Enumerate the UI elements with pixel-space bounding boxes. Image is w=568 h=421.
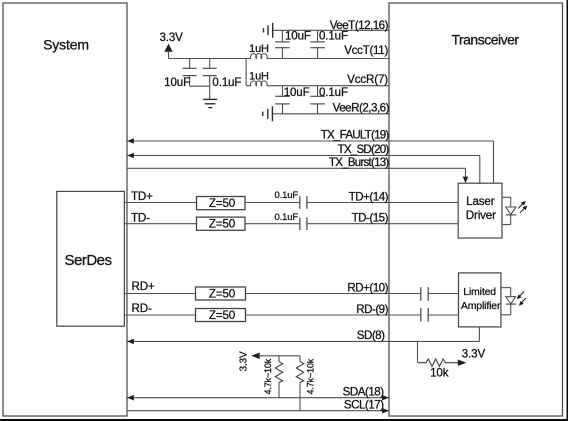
svg-text:SerDes: SerDes [64,252,111,269]
wire 3.3V rail [169,58,251,60]
svg-text:TX_SD(20): TX_SD(20) [338,143,390,156]
wire TD- to cap [245,223,300,225]
svg-text:Amplifier: Amplifier [461,300,501,312]
svg-text:VccR(7): VccR(7) [347,73,388,86]
wire VccT(11) [267,44,389,59]
wire TX_FAULT(19) [127,128,494,183]
svg-text:1uH: 1uH [249,70,269,82]
svg-text:TX_FAULT(19): TX_FAULT(19) [321,128,390,141]
wire RD- to limited amplifier [428,314,458,316]
capacitor C9 (RD+) [421,287,428,301]
wire TD+ from SerDes [124,190,196,203]
transceiver box [389,3,563,416]
wire C1-C2 bottom link [190,85,210,87]
wire TD+ to cap [245,202,300,204]
ground VeeT sideways [264,23,273,38]
inductor L2 1uH [249,70,269,85]
svg-text:SCL(17): SCL(17) [344,399,384,412]
wire TD- from SerDes [124,211,196,224]
page border bottom [0,419,568,421]
svg-text:Limited: Limited [463,286,496,298]
svg-text:10k: 10k [430,367,449,380]
capacitor 10uF C1 [164,59,196,90]
svg-text:RD+(10): RD+(10) [347,281,388,294]
svg-text:VccT(11): VccT(11) [344,44,388,57]
capacitor 10uF C5 (VccR-VeeR) [275,86,309,114]
resistor R6 4.7k~10k (SDA pullup) [263,356,283,398]
svg-text:Transceiver: Transceiver [451,31,519,47]
svg-text:RD-(9): RD-(9) [356,303,388,316]
capacitor 0.1uF C4 (VeeT-VccT) [310,30,348,59]
capacitor 10uF C3 (VeeT-VccT) [275,30,311,59]
inductor L1 1uH [249,43,269,59]
svg-text:0.1uF: 0.1uF [319,86,348,99]
resistor Z=50 R4 [196,309,246,323]
svg-text:TD+(14): TD+(14) [349,190,389,203]
svg-text:TD-(15): TD-(15) [352,212,389,225]
wire SD(8) [127,327,479,344]
capacitor 0.1uF C8 (TD-) [274,212,306,230]
wire VccR(7) [267,73,389,86]
capacitor 0.1uF C2 [203,59,242,90]
wire TD-(15) to laser driver [307,212,458,225]
svg-text:10uF: 10uF [284,86,310,99]
power 3.3V supply arrow [160,31,184,58]
svg-text:System: System [43,36,89,52]
wire RD+(10) to cap [246,281,421,294]
wire TX_Burst(13) [127,156,468,183]
page border right [567,0,568,421]
svg-text:SDA(18): SDA(18) [343,386,385,399]
svg-text:0.1uF: 0.1uF [274,190,298,201]
svg-text:10uF: 10uF [164,76,190,89]
wire RD+ to limited amplifier [428,293,458,295]
serdes box U1 [57,191,125,326]
wire RD- from SerDes [124,302,195,315]
svg-text:0.1uF: 0.1uF [319,30,348,43]
svg-text:SD(8): SD(8) [357,329,385,342]
laser driver box [458,183,502,238]
capacitor C10 (RD-) [421,308,428,322]
svg-text:Z=50: Z=50 [209,288,235,301]
svg-text:VeeR(2,3,6): VeeR(2,3,6) [333,101,390,114]
wire SDA(18) [127,386,389,401]
svg-text:RD+: RD+ [132,280,155,293]
svg-text:Z=50: Z=50 [209,309,235,322]
node junction rail to VccR [245,59,247,86]
LED D1 at laser driver [502,197,527,224]
svg-text:RD-: RD- [132,302,152,315]
svg-text:3.3V: 3.3V [238,351,249,371]
photodiode D2 at limited amplifier [501,288,526,315]
svg-text:3.3V: 3.3V [462,348,486,361]
resistor Z=50 R2 [197,217,246,231]
wire TX_SD(20) [127,143,480,183]
wire VeeR(2,3,6) [272,101,389,114]
resistor Z=50 R1 [197,197,246,211]
power 3.3V pullup arrow [238,351,300,371]
svg-text:0.1uF: 0.1uF [274,212,298,223]
wire ground drop [209,86,211,99]
ground [203,99,217,107]
capacitor 0.1uF C6 (VccR-VeeR) [310,86,348,114]
svg-text:3.3V: 3.3V [160,31,184,44]
svg-text:4.7k~10k: 4.7k~10k [306,358,316,394]
svg-text:Driver: Driver [466,209,496,222]
wire RD-(9) to cap [246,303,421,316]
resistor Z=50 R3 [196,287,246,301]
svg-text:10uF: 10uF [285,30,311,43]
system box [3,3,127,416]
svg-text:Laser: Laser [466,195,495,208]
svg-text:Z=50: Z=50 [209,218,235,231]
svg-text:0.1uF: 0.1uF [212,76,241,89]
resistor R7 4.7k~10k (SCL pullup) [296,356,315,411]
wire VeeT(12,16) [273,19,389,32]
svg-text:4.7k~10k: 4.7k~10k [263,358,273,394]
svg-text:TD-: TD- [131,211,150,224]
limited amplifier box [459,273,501,327]
wire RD+ from SerDes [124,280,195,294]
ground VeeR sideways [263,106,273,121]
svg-text:TD+: TD+ [131,190,153,203]
svg-text:1uH: 1uH [249,43,269,55]
wire TD+(14) to laser driver [307,190,458,203]
svg-text:Z=50: Z=50 [209,197,235,210]
wire SCL(17) [127,399,389,414]
svg-text:TX_Burst(13): TX_Burst(13) [329,156,389,169]
resistor 10k R5 [418,341,486,379]
capacitor 0.1uF C7 (TD+) [274,190,306,209]
